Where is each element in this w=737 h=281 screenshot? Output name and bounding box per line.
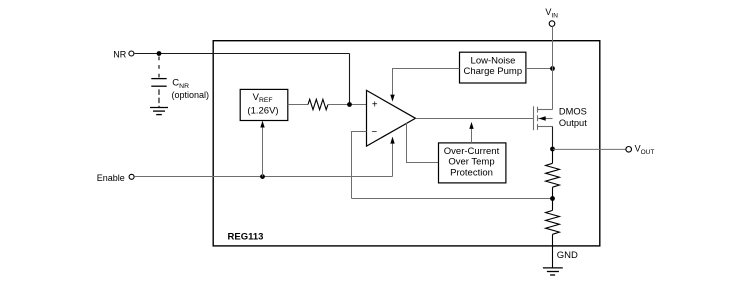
junction op-amp + node bbox=[347, 102, 352, 107]
ground GND bbox=[543, 268, 563, 275]
svg-text:Output: Output bbox=[559, 118, 587, 128]
IC outline box REG113 bbox=[213, 41, 600, 246]
transistor DMOS pass element bbox=[534, 106, 553, 130]
wire NR vertical to op-amp + node bbox=[349, 54, 351, 105]
wire op-amp output to gate bbox=[416, 118, 534, 120]
resistor R2 bottom of divider bbox=[552, 199, 554, 211]
junction Enable/VREF bbox=[260, 174, 265, 179]
wire dashed CNR bottom lead bbox=[158, 89, 160, 107]
wire resistor to op-amp + bbox=[328, 104, 367, 106]
svg-text:−: − bbox=[371, 127, 377, 138]
wire output to VOUT bbox=[553, 148, 627, 150]
wire op-amp to protection block bbox=[407, 123, 439, 162]
arrowhead into op-amp top bbox=[390, 95, 394, 102]
terminal NR bbox=[129, 51, 134, 56]
svg-text:(optional): (optional) bbox=[172, 90, 210, 100]
wire NR horizontal bbox=[135, 53, 350, 55]
svg-text:+: + bbox=[372, 100, 378, 111]
svg-text:Enable: Enable bbox=[97, 173, 125, 183]
svg-text:Over Temp: Over Temp bbox=[448, 157, 494, 168]
svg-text:REG113: REG113 bbox=[228, 232, 264, 243]
ground CNR bbox=[150, 108, 168, 115]
wire DMOS source down bbox=[552, 127, 554, 150]
arrowhead into VREF box bbox=[260, 121, 264, 128]
arrowhead DMOS body bbox=[539, 116, 546, 120]
svg-text:NR: NR bbox=[113, 49, 126, 59]
wire op-amp minus stub bbox=[352, 132, 367, 199]
svg-text:Charge Pump: Charge Pump bbox=[463, 66, 522, 77]
svg-text:Protection: Protection bbox=[450, 168, 493, 179]
op-amp error amplifier bbox=[367, 90, 416, 146]
junction NR/CNR bbox=[157, 51, 162, 56]
junction feedback node bbox=[550, 196, 555, 201]
block VREF bbox=[240, 89, 288, 120]
terminal Enable bbox=[129, 174, 134, 179]
wire R2 to ground bbox=[552, 234, 554, 267]
block Over-Current Over Temp Protection bbox=[439, 143, 506, 183]
wire Enable bbox=[135, 176, 393, 178]
svg-text:GND: GND bbox=[557, 250, 578, 261]
svg-text:Over-Current: Over-Current bbox=[444, 146, 500, 157]
arrowhead into op-amp bottom bbox=[390, 137, 394, 144]
junction VIN / charge pump bbox=[550, 66, 555, 71]
wire dashed CNR top lead bbox=[158, 57, 160, 79]
arrowhead protection sense bbox=[469, 122, 473, 129]
wire Enable to op-amp bottom bbox=[392, 143, 394, 176]
svg-text:(1.26V): (1.26V) bbox=[247, 105, 278, 116]
wire charge pump to op-amp top bbox=[393, 69, 460, 95]
wire Enable to VREF box bbox=[262, 127, 264, 177]
wire charge pump to VIN line bbox=[526, 68, 553, 70]
capacitor CNR bbox=[151, 79, 166, 87]
svg-text:Low-Noise: Low-Noise bbox=[471, 55, 516, 66]
wire VIN vertical bbox=[552, 26, 554, 109]
wire protection to output wire bbox=[471, 129, 473, 143]
svg-text:DMOS: DMOS bbox=[559, 106, 587, 116]
resistor series bbox=[308, 99, 328, 109]
junction output node bbox=[550, 147, 555, 152]
resistor R1 top of divider bbox=[552, 149, 554, 163]
terminal VOUT bbox=[626, 147, 632, 153]
block Low-Noise Charge Pump bbox=[460, 52, 526, 83]
wire feedback to divider bbox=[352, 198, 553, 200]
wire VREF to resistor bbox=[288, 104, 308, 106]
terminal VIN bbox=[549, 21, 555, 27]
